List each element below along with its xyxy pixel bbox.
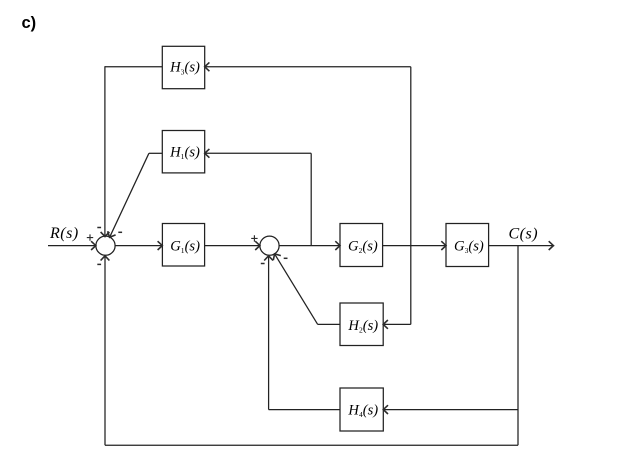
svg-text:R(s): R(s) (49, 225, 79, 242)
sign + at J1 left input (87, 234, 93, 240)
arrowhead into H4 (383, 405, 388, 414)
wire tap to H1 input (205, 152, 312, 154)
block G2 (340, 224, 383, 267)
wire H1 output leftward (149, 152, 162, 154)
wire outer feedback bottom run (105, 444, 518, 446)
wire J2 output to G2 input (279, 245, 340, 247)
svg-text:H1(s): H1(s) (169, 145, 200, 162)
summing junction J1 (96, 236, 115, 255)
block H3 (162, 46, 204, 88)
sign - at J2 bottom input (H4) (261, 263, 265, 265)
svg-text:H3(s): H3(s) (169, 60, 200, 77)
arrowhead into J2 from G1 (255, 241, 260, 250)
wire H4 output leftward (269, 409, 340, 411)
wire tap to H2 input (383, 323, 411, 325)
wire R(s) input to summing junction J1 (48, 245, 96, 247)
arrowhead into G2 (335, 241, 340, 250)
wire H2 output diagonal to J2 (275, 254, 318, 325)
wire vertical tap at C(s) down to H4 and outer loop (517, 246, 519, 446)
sign - at J1 diagonal input (H1) (118, 231, 122, 233)
wire J1 output to G1 input (115, 245, 162, 247)
wire H3 feedback down to J1 top (104, 66, 106, 236)
wire H4 feedback up to J2 bottom (268, 256, 270, 410)
block H2 (340, 303, 383, 346)
sign + at J2 left input (251, 235, 257, 241)
svg-text:G2(s): G2(s) (348, 239, 378, 256)
svg-text:C(s): C(s) (509, 226, 539, 243)
arrowhead into H3 (205, 62, 210, 71)
wire vertical tap at J2 output feeding H1 (310, 153, 312, 245)
block G3 (446, 224, 489, 267)
arrowhead into J1 top from H3 (101, 232, 110, 237)
wire G3 output to C(s) output arrow (489, 245, 555, 247)
wire vertical tap at G2 output feeding H3 and H2 (410, 67, 412, 325)
summing junction J2 (260, 236, 279, 255)
block H1 (162, 131, 204, 173)
wire tap to H3 input (205, 66, 411, 68)
arrowhead C(s) output (549, 241, 554, 250)
svg-text:G3(s): G3(s) (454, 239, 484, 256)
block H4 (340, 388, 383, 431)
arrowhead into J2 from H2 diagonal (273, 254, 281, 260)
sign - at J1 bottom input (outer loop) (97, 263, 101, 265)
sign - at J2 diagonal input (H2) (284, 257, 288, 259)
sign - at J1 top input (H3) (97, 227, 101, 229)
arrowhead into J1 bottom from outer loop (101, 256, 110, 261)
block G1 (162, 224, 204, 267)
wire H3 output leftward (105, 66, 162, 68)
svg-text:G1(s): G1(s) (170, 239, 200, 256)
arrowhead into G1 (158, 241, 163, 250)
svg-text:c): c) (22, 14, 37, 32)
arrowhead into H1 (205, 149, 210, 158)
arrowhead into G3 (441, 241, 446, 250)
svg-text:H2(s): H2(s) (347, 318, 378, 335)
arrowhead into J2 bottom from H4 (264, 256, 273, 261)
svg-text:H4(s): H4(s) (347, 403, 378, 420)
wire H2 output leftward (318, 323, 340, 325)
wire tap to H4 input (383, 409, 518, 411)
arrowhead into J1 from R(s) (91, 241, 96, 250)
arrowhead into H2 (383, 320, 388, 329)
wire G2 output to G3 input (383, 245, 446, 247)
arrowhead into J1 from H1 diagonal (108, 231, 116, 237)
wire G1 output to summing junction J2 (205, 245, 260, 247)
wire outer feedback up to J1 bottom (104, 256, 106, 446)
wire H1 output diagonal to J1 (110, 153, 149, 237)
